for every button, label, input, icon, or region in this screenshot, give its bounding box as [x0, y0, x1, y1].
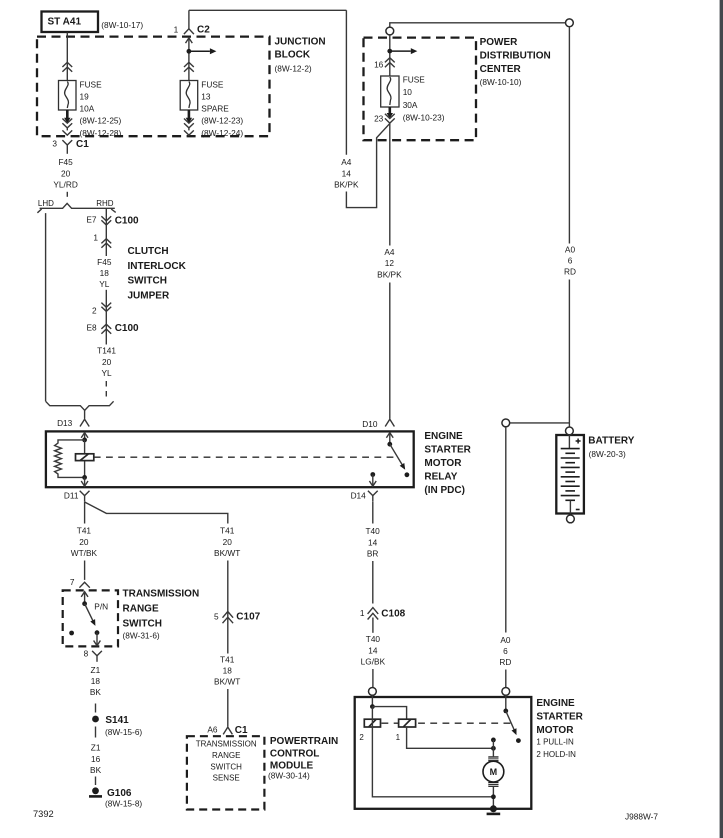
junction dot and feed arrow in PDC	[387, 49, 392, 54]
svg-text:Z1: Z1	[91, 743, 101, 753]
pull-in coil 1 box	[399, 719, 416, 727]
relay switch common node	[387, 442, 392, 447]
svg-text:D10: D10	[362, 419, 378, 429]
screen edge band	[720, 0, 723, 838]
wire battery positive riser lower	[568, 280, 570, 427]
svg-text:13: 13	[201, 91, 211, 101]
wire C2 to fuse 13	[188, 51, 190, 80]
wire fuse 19 to pin 3	[66, 128, 68, 130]
svg-text:A0: A0	[565, 244, 576, 254]
svg-text:(8W-12-2): (8W-12-2)	[275, 64, 312, 74]
svg-text:20: 20	[102, 357, 112, 367]
wire A0 starter feed upper	[505, 427, 507, 633]
svg-text:C100: C100	[115, 323, 139, 334]
svg-text:(8W-12-28): (8W-12-28)	[80, 128, 122, 138]
wire motor feed	[492, 740, 494, 756]
wire C2 feed down from top rail	[188, 10, 190, 28]
svg-text:Z1: Z1	[91, 665, 101, 675]
wire pull-in coil to motor node	[407, 727, 494, 748]
svg-text:19: 19	[80, 91, 90, 101]
starter solenoid node	[370, 704, 375, 709]
svg-text:T41: T41	[220, 526, 235, 536]
svg-text:14: 14	[342, 168, 352, 178]
svg-text:POWERTRAIN: POWERTRAIN	[270, 736, 338, 747]
connector C100 cavity E8 chevrons	[101, 324, 111, 329]
svg-text:D13: D13	[57, 418, 73, 428]
svg-text:RANGE: RANGE	[123, 604, 159, 615]
svg-text:YL: YL	[102, 368, 113, 378]
svg-text:P/N: P/N	[94, 602, 108, 612]
battery negative stem	[569, 501, 571, 514]
svg-text:JUNCTION: JUNCTION	[275, 37, 326, 48]
svg-text:RANGE: RANGE	[212, 751, 240, 760]
wire T41 BK/WT lower	[227, 689, 229, 727]
svg-text:TRANSMISSION: TRANSMISSION	[123, 589, 200, 600]
svg-text:16: 16	[374, 60, 384, 70]
svg-text:A4: A4	[384, 247, 395, 257]
svg-text:A4: A4	[341, 157, 352, 167]
wire RHD branch upper	[105, 208, 107, 256]
junction dot and feed arrow in junction block	[187, 49, 192, 54]
svg-text:CONTROL: CONTROL	[270, 749, 319, 760]
battery positive eyelet	[566, 427, 574, 435]
svg-text:SENSE: SENSE	[213, 773, 240, 782]
svg-text:(8W-12-23): (8W-12-23)	[201, 115, 243, 125]
LHD/RHD split bracket	[40, 203, 115, 208]
battery negative eyelet	[567, 515, 575, 523]
wire fuse 13 tail	[188, 128, 190, 130]
power distribution center dashed box	[364, 38, 477, 141]
fuse 10 output arrow	[388, 107, 391, 114]
svg-text:BATTERY: BATTERY	[588, 436, 634, 447]
svg-text:M: M	[490, 767, 498, 777]
svg-text:(8W-31-6): (8W-31-6)	[123, 631, 160, 641]
svg-text:POWER: POWER	[480, 37, 519, 48]
relay coil node top	[82, 438, 87, 443]
relay coil entry arrow D13	[84, 434, 86, 440]
wire T40 BR lower	[372, 561, 374, 604]
splice S141	[92, 716, 99, 723]
svg-text:C1: C1	[76, 139, 89, 150]
wire relay coil vertical	[84, 440, 86, 478]
svg-text:YL/RD: YL/RD	[53, 180, 77, 190]
relay coil exit arrow D11	[84, 477, 86, 485]
svg-text:E8: E8	[86, 323, 97, 333]
engine starter motor box	[355, 697, 532, 809]
svg-text:ENGINE: ENGINE	[536, 698, 575, 709]
pin 7 connector	[79, 582, 89, 587]
svg-text:TRANSMISSION: TRANSMISSION	[196, 739, 257, 748]
svg-text:1: 1	[396, 733, 401, 742]
svg-text:BK: BK	[90, 765, 102, 775]
svg-text:RD: RD	[564, 267, 576, 277]
svg-text:20: 20	[79, 537, 89, 547]
connector C108 chevrons	[368, 608, 379, 614]
svg-text:CENTER: CENTER	[480, 64, 522, 75]
svg-text:LG/BK: LG/BK	[361, 657, 386, 667]
connector chevrons above fuse 10	[385, 58, 395, 63]
TRS unused contact	[69, 631, 74, 636]
wire A4 12 BK/PK upper	[389, 123, 391, 245]
svg-text:20: 20	[223, 537, 233, 547]
wire top rail PDC to battery	[390, 23, 566, 27]
TRS switch blade	[85, 604, 94, 623]
svg-text:(8W-20-3): (8W-20-3)	[589, 449, 626, 459]
starter switch common node	[503, 709, 508, 714]
svg-text:C2: C2	[197, 24, 210, 35]
svg-text:SWITCH: SWITCH	[123, 618, 162, 629]
svg-text:1: 1	[174, 24, 179, 34]
svg-text:(8W-15-8): (8W-15-8)	[105, 799, 142, 809]
svg-text:BK/WT: BK/WT	[214, 677, 240, 687]
hold-in coil 2 box	[364, 719, 380, 727]
svg-text:6: 6	[568, 256, 573, 266]
svg-text:BK/WT: BK/WT	[214, 548, 240, 558]
TRS switch common node	[82, 601, 87, 606]
svg-text:CLUTCH: CLUTCH	[128, 246, 169, 257]
svg-text:STARTER: STARTER	[536, 711, 583, 722]
svg-text:MOTOR: MOTOR	[536, 725, 574, 736]
starter switch contact	[516, 738, 521, 743]
starter switch blade	[506, 711, 515, 732]
wire T40 LG/BK lower	[372, 669, 374, 687]
svg-text:T40: T40	[365, 526, 380, 536]
svg-text:A6: A6	[207, 725, 218, 735]
wire D11 to transmission range switch upper	[84, 502, 86, 524]
resistor in relay (parallel)	[55, 440, 85, 478]
svg-text:(8W-15-6): (8W-15-6)	[105, 727, 142, 737]
svg-text:FUSE: FUSE	[201, 79, 224, 89]
node ST A41 hot-at-all-times feed box	[42, 12, 99, 33]
wire starter switch feed	[505, 695, 507, 711]
LHD/RHD merge bracket	[46, 401, 114, 410]
svg-text:10A: 10A	[80, 103, 95, 113]
pin 8 connector	[92, 651, 102, 656]
svg-text:(8W-10-17): (8W-10-17)	[101, 20, 143, 30]
svg-text:5: 5	[214, 611, 219, 621]
relay coil node bottom	[82, 475, 87, 480]
svg-text:10: 10	[403, 87, 413, 97]
wire T40 LG/BK upper	[372, 618, 374, 633]
svg-text:3: 3	[52, 138, 57, 148]
svg-text:BK/PK: BK/PK	[377, 269, 402, 279]
svg-text:MOTOR: MOTOR	[424, 458, 462, 469]
transmission range switch dashed box	[63, 590, 118, 646]
wire motor to case ground	[492, 787, 494, 809]
relay linkage dashed line	[94, 456, 394, 458]
svg-text:SWITCH: SWITCH	[210, 762, 242, 771]
wire A4 riser lower segment	[346, 124, 389, 208]
eyelet terminal battery-starter branch	[502, 419, 510, 427]
svg-text:INTERLOCK: INTERLOCK	[128, 261, 187, 272]
svg-text:(8W-12-24): (8W-12-24)	[201, 128, 243, 138]
wire T41 to PCM connector	[223, 727, 232, 734]
wire hold-in coil to ground bus	[372, 727, 493, 797]
jumper pin 2 chevrons	[101, 303, 111, 308]
motor M1	[483, 761, 504, 782]
svg-text:FUSE: FUSE	[80, 79, 103, 89]
eyelet terminal at PDC B+	[386, 27, 394, 35]
starter motor node	[491, 746, 496, 751]
wire A4 riser upper segment	[345, 10, 347, 154]
relay coil box	[76, 454, 94, 461]
svg-text:E7: E7	[86, 215, 97, 225]
connector C2 half	[184, 29, 194, 34]
svg-text:16: 16	[91, 754, 101, 764]
starter linkage dashed line	[382, 722, 512, 724]
wire A4 12 BK/PK lower	[389, 283, 391, 419]
battery plates	[561, 448, 580, 450]
starter eyelet terminal right	[502, 688, 510, 696]
svg-text:T40: T40	[366, 634, 381, 644]
jumper pin 1 chevrons	[101, 239, 111, 244]
svg-text:C108: C108	[381, 609, 405, 620]
svg-text:F45: F45	[97, 257, 112, 267]
connector chevrons above fuse 13	[184, 62, 194, 67]
battery minus mark	[576, 509, 580, 511]
connector chevrons above fuse 19	[62, 62, 72, 67]
svg-text:8: 8	[84, 648, 89, 658]
wire LHD branch	[45, 213, 47, 401]
wire battery positive riser upper	[568, 27, 570, 244]
connector C1 half below junction block	[62, 140, 72, 145]
wire T41 BK/WT mid	[227, 561, 229, 654]
battery box	[556, 435, 584, 514]
fuse 13 output arrow	[188, 110, 191, 119]
wire hold-in coil through	[371, 707, 373, 727]
svg-text:D11: D11	[64, 490, 79, 500]
engine starter motor relay box	[46, 431, 414, 487]
svg-text:1 PULL-IN: 1 PULL-IN	[536, 738, 574, 747]
svg-text:A0: A0	[500, 635, 511, 645]
starter switch contact node upper	[491, 738, 496, 743]
fuse F10 symbol	[381, 76, 399, 107]
svg-text:7392: 7392	[33, 809, 54, 819]
svg-text:BLOCK: BLOCK	[275, 50, 311, 61]
battery positive stem	[568, 435, 570, 449]
motor brush upper	[488, 756, 498, 761]
TRS entry arrow pin 7	[84, 593, 86, 604]
eyelet terminal at battery positive rail	[566, 19, 574, 27]
svg-text:1: 1	[360, 608, 365, 618]
svg-text:C1: C1	[235, 725, 248, 736]
pin D10 connector	[385, 419, 394, 426]
svg-text:C107: C107	[236, 612, 260, 623]
wire starter solenoid feed	[371, 695, 373, 706]
starter case ground	[490, 805, 497, 812]
wire D11 branch to PCM riser	[85, 502, 228, 524]
svg-text:12: 12	[385, 258, 395, 268]
TRS exit arrow pin 8	[96, 633, 98, 645]
wire stub to LHD/RHD split	[66, 192, 68, 197]
svg-text:RHD: RHD	[96, 199, 114, 208]
svg-text:2: 2	[359, 733, 364, 742]
wire T40 BR upper	[372, 502, 374, 524]
svg-text:2: 2	[92, 305, 97, 315]
wire solenoid branch to pull-in coil	[372, 707, 406, 720]
wire RHD dashed tail	[105, 381, 107, 398]
fuse 19 output arrow	[66, 110, 69, 119]
svg-text:LHD: LHD	[38, 199, 54, 208]
wire top rail C2 to A4 riser	[189, 9, 347, 11]
svg-text:STARTER: STARTER	[424, 444, 471, 455]
wire RHD branch mid	[105, 290, 107, 345]
fuse F13 symbol	[180, 81, 198, 111]
fuse F19 symbol	[59, 81, 77, 111]
svg-text:ENGINE: ENGINE	[424, 431, 463, 442]
svg-text:20: 20	[61, 168, 71, 178]
battery plus mark	[576, 440, 581, 442]
wire Z1 18 BK dash	[95, 704, 97, 713]
svg-text:(8W-10-10): (8W-10-10)	[480, 77, 522, 87]
junction block dashed box	[37, 37, 270, 137]
TRS switch contact P/N	[95, 630, 100, 635]
svg-text:(8W-10-23): (8W-10-23)	[403, 112, 445, 122]
relay switch contact	[405, 472, 410, 477]
ground G106	[92, 787, 99, 794]
pin D14 connector	[368, 491, 378, 496]
powertrain control module dashed box	[187, 736, 265, 809]
svg-text:2 HOLD-IN: 2 HOLD-IN	[536, 750, 576, 759]
junction block entry arrow C2	[188, 39, 190, 51]
svg-text:G106: G106	[107, 788, 132, 799]
svg-text:D14: D14	[351, 490, 367, 500]
svg-text:T41: T41	[77, 526, 92, 536]
svg-text:T41: T41	[220, 654, 235, 664]
relay output node D14	[370, 472, 375, 477]
svg-text:23: 23	[374, 114, 384, 124]
wire S141 to Z1 16 dash	[95, 727, 97, 738]
svg-text:YL: YL	[99, 279, 110, 289]
svg-text:F45: F45	[58, 157, 73, 167]
svg-text:SPARE: SPARE	[201, 103, 229, 113]
svg-text:C100: C100	[115, 215, 139, 226]
connector C100 cavity E7 chevrons	[101, 216, 111, 221]
svg-text:18: 18	[223, 666, 233, 676]
svg-text:RELAY: RELAY	[424, 471, 457, 482]
svg-text:ST A41: ST A41	[48, 17, 82, 28]
svg-text:DISTRIBUTION: DISTRIBUTION	[480, 51, 551, 62]
svg-text:14: 14	[368, 537, 378, 547]
svg-text:BR: BR	[367, 549, 379, 559]
wire battery to starter branch	[510, 422, 570, 424]
svg-text:WT/BK: WT/BK	[71, 548, 98, 558]
motor brush lower	[488, 782, 498, 787]
svg-text:SWITCH: SWITCH	[128, 276, 167, 287]
svg-text:6: 6	[503, 646, 508, 656]
svg-text:(8W-30-14): (8W-30-14)	[268, 771, 310, 781]
svg-text:JUMPER: JUMPER	[128, 290, 170, 301]
starter eyelet terminal left	[369, 688, 377, 696]
svg-text:S141: S141	[105, 715, 129, 726]
wire PDC eyelet to fuse 10	[389, 35, 391, 76]
svg-text:(IN PDC): (IN PDC)	[424, 485, 465, 496]
svg-text:RD: RD	[499, 657, 511, 667]
relay output exit arrow D14	[372, 475, 374, 486]
wire A0 starter feed lower	[505, 670, 507, 688]
svg-text:T141: T141	[97, 346, 116, 356]
svg-text:FUSE: FUSE	[403, 74, 426, 84]
svg-text:1: 1	[93, 233, 98, 243]
wire ST A41 to fuse 19	[66, 33, 68, 81]
pin D13 connector	[84, 410, 86, 418]
relay switch blade	[390, 444, 404, 467]
wire Z1 16 BK dash	[95, 777, 97, 786]
svg-text:14: 14	[368, 645, 378, 655]
svg-text:J988W-7: J988W-7	[625, 811, 658, 821]
wire T41 WT/BK lower	[84, 561, 86, 580]
pin D11 connector	[80, 491, 90, 496]
ground bus node	[491, 794, 496, 799]
svg-text:BK/PK: BK/PK	[334, 180, 359, 190]
svg-text:18: 18	[100, 268, 110, 278]
svg-text:7: 7	[70, 577, 75, 587]
svg-text:BK: BK	[90, 687, 102, 697]
relay switch entry arrow D10	[389, 434, 391, 445]
connector C107 chevrons	[223, 612, 234, 618]
svg-text:18: 18	[91, 676, 101, 686]
svg-text:(8W-12-25): (8W-12-25)	[80, 115, 122, 125]
svg-text:30A: 30A	[403, 100, 418, 110]
